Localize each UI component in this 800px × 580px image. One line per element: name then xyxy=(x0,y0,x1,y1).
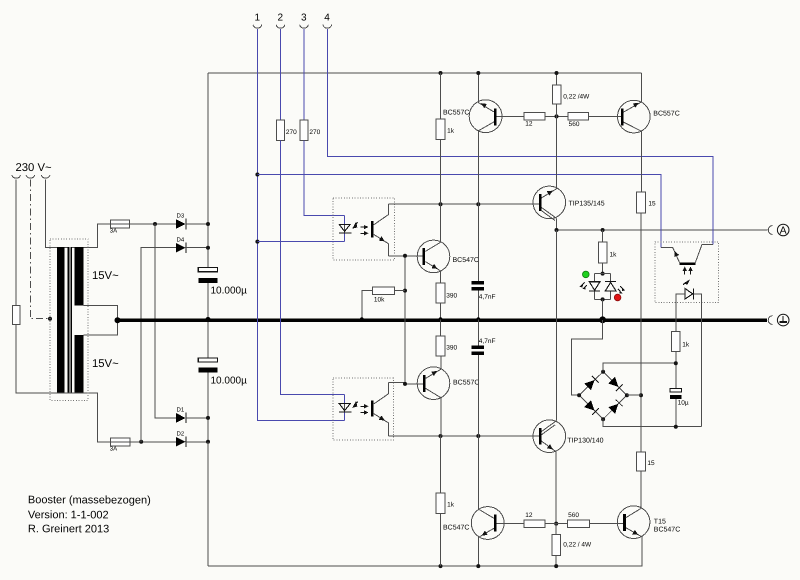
svg-text:10µ: 10µ xyxy=(678,400,689,407)
LED D6 emission arrows xyxy=(620,286,623,289)
resistor R11 12 lower xyxy=(524,520,545,528)
bridge diode SW xyxy=(584,400,594,410)
svg-text:15: 15 xyxy=(647,460,655,467)
OK3 phototransistor base bar xyxy=(680,263,696,266)
T6 emitter xyxy=(624,73,642,112)
T6 emitter arrow xyxy=(633,103,639,108)
T7 emitter xyxy=(542,116,557,197)
resistor R4 390 upper xyxy=(436,283,445,303)
wire net3 lower (blue) xyxy=(304,140,345,215)
transistor T6 BC557C upper-right xyxy=(618,100,651,133)
LED pair loop wires xyxy=(595,274,611,300)
T3 emitter arrow xyxy=(432,264,438,269)
capacitor C2 10.000u lower xyxy=(207,320,209,358)
transistor T10 T15 BC547C lower-right xyxy=(617,506,650,539)
transistor T4 BC557C (lower driver) xyxy=(417,367,450,400)
center tap junction dot xyxy=(115,317,121,323)
T7 collector double line xyxy=(542,208,557,221)
OK1 LED triangle xyxy=(339,224,350,231)
OK2 collector path xyxy=(374,383,389,404)
output rail A xyxy=(557,229,768,231)
LED D5 cathode bar xyxy=(589,290,600,292)
OK3 emitter arrow xyxy=(674,251,679,257)
junction dot 390 on bus xyxy=(438,317,442,321)
junction dot LED pair top xyxy=(601,272,605,276)
T4 collector xyxy=(426,388,441,436)
T7 emitter arrow xyxy=(547,191,553,196)
ground bus terminal arc xyxy=(768,316,772,325)
OK1 emitter arrow xyxy=(379,236,385,241)
resistor R16 1k LED xyxy=(602,230,604,242)
svg-text:TIP130/140: TIP130/140 xyxy=(567,437,603,444)
resistor R8 0,22/4W upper xyxy=(556,73,558,85)
junction dot LED branch on bus (big) xyxy=(599,316,606,323)
junction dot 0.22 lower on bottom rail xyxy=(554,564,558,568)
transformer secondary winding lower xyxy=(75,335,84,393)
wire netC (blue) to right opto emitter xyxy=(257,175,661,248)
junction dot T9 emitter bottom rail xyxy=(476,564,480,568)
junction dot rail A / LED branch xyxy=(601,228,605,232)
T9 emitter xyxy=(478,528,494,566)
T10 collector xyxy=(626,471,641,518)
OK3 LED triangle (right) xyxy=(685,288,693,299)
T5 base stub xyxy=(497,115,525,117)
wire T7C to T8C xyxy=(556,230,558,421)
svg-text:15: 15 xyxy=(648,200,656,207)
resistor R12 0,22/4W lower xyxy=(552,535,561,556)
svg-text:12: 12 xyxy=(525,512,533,519)
svg-text:2: 2 xyxy=(277,12,283,23)
wire below box to primary bottom xyxy=(16,325,110,442)
PE shield junction dot xyxy=(48,317,52,321)
wire net2 upper (blue) xyxy=(280,29,282,120)
svg-text:560: 560 xyxy=(568,512,579,519)
wire OK1-E / OK2-C vertical x=405 xyxy=(388,256,423,384)
transistor T5 BC557C upper-left (mirrored) xyxy=(469,100,502,133)
T6 base bar xyxy=(621,108,624,125)
wire net1 vertical (blue) xyxy=(257,29,344,420)
svg-text:D2: D2 xyxy=(176,431,184,437)
fuse/varistor box left xyxy=(13,305,20,324)
svg-text:A: A xyxy=(780,225,787,237)
bridge bottom corner wire xyxy=(603,419,702,427)
capacitor C3 4.7nF upper xyxy=(477,204,479,281)
terminal A arc xyxy=(768,226,772,235)
T5 emitter arrow xyxy=(481,103,487,108)
junction dot net1/O1 cathode xyxy=(255,240,259,244)
wire fuse to D2 xyxy=(130,441,176,443)
bridge diode NE xyxy=(608,377,618,387)
svg-text:3A: 3A xyxy=(110,228,117,234)
junction dot node E1 xyxy=(555,114,559,118)
transformer primary winding bar xyxy=(57,247,65,393)
T8 base bar xyxy=(539,428,542,445)
T8 emitter arrow xyxy=(547,444,553,449)
junction dot T8 emitter node E2 xyxy=(554,522,558,526)
svg-text:10.000µ: 10.000µ xyxy=(210,375,247,386)
OK1 light emission zigzag xyxy=(353,222,358,228)
svg-text:BC547C: BC547C xyxy=(452,257,478,264)
terminal X1-N xyxy=(41,175,50,178)
OK1 LED cathode bar xyxy=(339,232,352,234)
svg-text:1: 1 xyxy=(254,12,260,23)
T10 base bar xyxy=(623,514,626,531)
transistor T3 BC547C (upper driver) xyxy=(417,240,450,273)
OK3 LED wires xyxy=(676,294,702,427)
T4 emitter xyxy=(426,336,441,378)
junction dot net1/netC xyxy=(255,173,259,177)
junction dot 10u bottom xyxy=(674,425,678,429)
T10 emitter xyxy=(626,528,642,540)
svg-text:Version: 1-1-002: Version: 1-1-002 xyxy=(28,509,109,521)
resistor R13 560 lower xyxy=(567,520,589,528)
transistor T9 BC547C lower-left (mirrored) xyxy=(471,507,504,540)
svg-text:1k: 1k xyxy=(447,128,455,135)
svg-text:D1: D1 xyxy=(176,407,184,413)
T7 base bar xyxy=(539,194,542,211)
T4 base bar xyxy=(423,375,426,392)
capacitor C1 10.000u upper xyxy=(198,268,217,272)
svg-text:4: 4 xyxy=(324,12,330,23)
svg-text:230 V~: 230 V~ xyxy=(15,162,52,174)
T6 collector xyxy=(624,122,642,192)
LED D6 red indicator dot xyxy=(614,294,621,301)
OK1 phototransistor base bar xyxy=(371,221,374,237)
LED D5 emission arrows xyxy=(582,282,585,285)
transformer core bars xyxy=(68,247,72,393)
wire L down xyxy=(15,179,17,305)
svg-text:270: 270 xyxy=(309,129,320,136)
center tap wires xyxy=(84,306,118,336)
T9 emitter arrow xyxy=(482,531,488,536)
resistor R9 560 upper xyxy=(568,113,588,121)
LED D6 cathode bar (top) xyxy=(605,280,616,282)
transistor T7 TIP135/145 xyxy=(533,186,566,219)
junction dot 1k bottom rail xyxy=(439,564,443,568)
svg-text:BC557C: BC557C xyxy=(453,379,479,386)
LED D5 triangle (down) xyxy=(589,282,600,291)
node F2 junction dot xyxy=(139,440,143,444)
OK1 LED cathode wire xyxy=(257,241,344,243)
wire fuse to D3 node xyxy=(130,223,176,225)
svg-text:560: 560 xyxy=(569,121,580,128)
bridge corner dots xyxy=(601,370,605,374)
T9 base stub xyxy=(497,523,525,525)
svg-text:12: 12 xyxy=(525,121,533,128)
terminal X1-PE xyxy=(26,175,35,178)
OK2 light arrows xyxy=(360,405,364,407)
svg-text:T15: T15 xyxy=(654,518,666,525)
svg-text:R. Greinert 2013: R. Greinert 2013 xyxy=(28,523,109,535)
svg-text:0,22 /4W: 0,22 /4W xyxy=(563,93,590,100)
svg-text:1k: 1k xyxy=(447,501,455,508)
resistor R10 15 upper xyxy=(637,192,646,213)
svg-text:TIP135/145: TIP135/145 xyxy=(568,200,604,207)
wire node F1 down to D1 xyxy=(155,224,176,418)
terminal X1-1 (mains L) xyxy=(12,175,21,178)
resistor R7 12 upper xyxy=(524,113,545,121)
svg-text:4,7nF: 4,7nF xyxy=(479,294,496,301)
OK2 LED triangle xyxy=(339,404,350,411)
resistor R17 1k right xyxy=(672,331,681,351)
OK2 emitter path xyxy=(374,414,389,436)
junction dot T7 collector on rail A xyxy=(555,228,559,232)
OK2 phototransistor base bar xyxy=(371,400,374,416)
wire down to bottom rail xyxy=(207,442,209,566)
svg-text:BC557C: BC557C xyxy=(443,109,469,116)
wire net3 upper (blue) xyxy=(303,29,305,120)
svg-text:BC547C: BC547C xyxy=(443,524,469,531)
svg-text:1k: 1k xyxy=(609,251,617,258)
wire net2 lower (blue) xyxy=(281,140,345,394)
junction dot 1k/bridge top xyxy=(674,361,678,365)
wire N down to primary top xyxy=(46,179,111,247)
T3 emitter xyxy=(425,262,440,284)
svg-text:270: 270 xyxy=(286,129,297,136)
wire node F2 up to D4 xyxy=(141,248,176,442)
junction dot rail/0.22 xyxy=(555,71,559,75)
T3 collector xyxy=(425,204,440,251)
OK2 emitter arrow xyxy=(379,415,385,420)
optocoupler OK2 dashed box xyxy=(333,378,393,440)
OK1 light arrows xyxy=(360,226,364,228)
svg-text:1k: 1k xyxy=(682,341,690,348)
junction dot bridge right on x641 xyxy=(639,393,643,397)
resistor R5 390 lower xyxy=(436,336,445,356)
capacitor C5 10u xyxy=(670,389,682,393)
LED D5 green indicator dot xyxy=(583,271,590,278)
svg-text:D3: D3 xyxy=(176,213,184,219)
bridge right corner wire xyxy=(627,394,641,396)
OK3 LED cathode bar xyxy=(693,288,695,299)
svg-text:390: 390 xyxy=(446,344,457,351)
optocoupler OK1 dashed box xyxy=(333,198,395,260)
resistor R6 1k upper left xyxy=(440,73,442,119)
svg-text:3A: 3A xyxy=(110,446,117,452)
junction dot rail/T5 emitter xyxy=(476,71,480,75)
transformer secondary winding upper xyxy=(75,247,84,306)
svg-text:BC547C: BC547C xyxy=(654,526,680,533)
junction dot 10k on bus xyxy=(360,317,364,321)
node B2 rail: OK2 emitter to TIP130 base xyxy=(388,435,539,437)
bottom supply rail xyxy=(208,539,642,566)
terminal A circle xyxy=(777,224,789,236)
OK3 phototransistor collector path xyxy=(695,244,713,262)
svg-text:Booster (massebezogen): Booster (massebezogen) xyxy=(28,494,151,506)
T5 collector xyxy=(478,122,494,204)
bridge diode NW xyxy=(584,380,594,390)
T3 base bar xyxy=(423,248,426,265)
junction dot C1 on bus xyxy=(205,317,210,322)
OK2 LED anode wire xyxy=(344,395,346,421)
OK3 phototransistor emitter path xyxy=(661,247,680,262)
svg-text:15V~: 15V~ xyxy=(92,358,119,370)
transistor T8 TIP130/140 xyxy=(533,420,566,453)
OK3 LED emission zigzag xyxy=(683,281,689,285)
svg-text:D4: D4 xyxy=(176,237,184,243)
OK2 LED cathode bar xyxy=(339,411,352,413)
svg-text:10k: 10k xyxy=(374,296,385,303)
resistor R2 270 xyxy=(300,120,308,141)
T9 collector xyxy=(478,436,494,518)
node F1 junction dot xyxy=(153,222,157,226)
LED D6 triangle (up) xyxy=(605,282,616,291)
ground bus (thick) xyxy=(118,319,767,322)
fuse 3A lower xyxy=(110,438,130,446)
OK2 light emission zigzag xyxy=(353,402,358,408)
PE dash-dot wire to shield xyxy=(30,179,50,318)
ground terminal circle symbol xyxy=(777,314,789,326)
svg-text:BC557C: BC557C xyxy=(653,110,679,117)
bridge diode SE xyxy=(608,404,618,414)
bridge top corner jog to 1k xyxy=(603,363,676,372)
resistor R15 15 lower xyxy=(637,452,646,471)
svg-text:4,7nF: 4,7nF xyxy=(479,338,496,345)
svg-text:10.000µ: 10.000µ xyxy=(210,285,247,296)
transformer shield dotted box xyxy=(50,239,88,400)
svg-text:390: 390 xyxy=(446,292,457,299)
svg-text:0,22 / 4W: 0,22 / 4W xyxy=(563,541,592,548)
optocoupler OK3 dashed box xyxy=(655,242,719,303)
T8 collector double line xyxy=(542,421,557,435)
T5 emitter xyxy=(478,73,494,112)
OK3 light arrows (up) xyxy=(684,270,686,274)
top supply rail xyxy=(208,72,641,74)
svg-text:3: 3 xyxy=(301,12,307,23)
T4 emitter arrow xyxy=(431,371,437,376)
junction dot C3 on bus xyxy=(476,317,480,321)
junction dot rail/1k xyxy=(439,71,443,75)
T10 emitter arrow xyxy=(632,530,638,535)
main DC vertical rail x=208 xyxy=(207,73,209,268)
wire net4 (blue) to right opto collector xyxy=(327,29,713,244)
node B1 rail: OK1 collector to TIP135 base xyxy=(388,203,539,205)
bridge diamond outline xyxy=(579,372,627,420)
OK1 emitter path xyxy=(374,234,389,255)
resistor R3 10k xyxy=(373,287,395,294)
resistor R1 270 xyxy=(276,120,284,141)
junction dot LED pair bottom xyxy=(601,297,605,301)
resistor R14 1k lower xyxy=(440,436,442,493)
OK1 LED anode wire xyxy=(344,215,346,241)
T8 emitter xyxy=(542,441,557,523)
fuse 3A upper xyxy=(110,220,129,228)
OK1 collector path xyxy=(374,204,389,225)
T5 base bar xyxy=(494,108,497,125)
T9 base bar xyxy=(494,515,497,532)
svg-text:15V~: 15V~ xyxy=(92,270,119,282)
bridge rectifier feed from bus dot xyxy=(572,320,603,395)
